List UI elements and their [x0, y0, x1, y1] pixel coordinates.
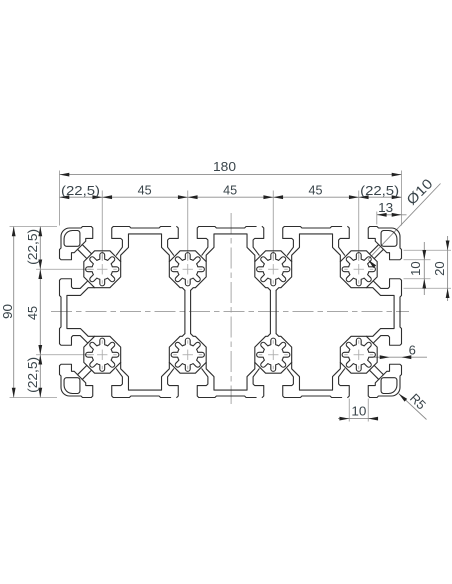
center mark dash L (67.5,22.5) [173, 268, 177, 270]
center mark dash R (22.5,22.5) [113, 268, 117, 270]
corner arc top-left [61, 228, 70, 237]
center mark dash B (157.5,67.5) [358, 366, 360, 370]
wire slot funnel top x=67.5 right [197, 227, 208, 256]
center mark bore (112.5,67.5) v [272, 350, 274, 360]
center mark bore (112.5,67.5) h [268, 354, 278, 356]
arrow r10 T [422, 250, 426, 260]
center mark bore (22.5,22.5) h [97, 268, 107, 270]
center mark dash B (22.5,67.5) [101, 366, 103, 370]
center mark dash R (67.5,67.5) [199, 354, 203, 356]
wire top box x=45 [121, 234, 170, 262]
wire outer top face [284, 227, 341, 229]
wire slot funnel bottom x=112.5 right [283, 369, 294, 398]
center mark dash R (22.5,67.5) [113, 354, 117, 356]
arrow r20 T [446, 240, 450, 250]
arrow chain 4 R [392, 195, 402, 199]
ext 180 right [401, 171, 403, 226]
center line horizontal [51, 311, 409, 313]
ext 13 left [376, 212, 378, 225]
svg-text:10: 10 [408, 261, 423, 276]
svg-text:13: 13 [378, 200, 393, 215]
ext chain x=67.5 [187, 191, 189, 261]
wire bottom box x=90 [206, 362, 255, 390]
arrow 6 R [402, 355, 412, 359]
arrow 13 R [392, 213, 402, 217]
dim line left chain [39, 227, 41, 398]
wire outer bottom face [199, 396, 256, 398]
arrow b10 L [339, 417, 349, 421]
boss octagon bore 2 (67.5,22.5) [169, 251, 206, 291]
dim line right 10 [423, 242, 425, 295]
svg-text:45: 45 [309, 182, 323, 197]
arrow 90 B [12, 388, 16, 398]
wire outer bottom face [284, 396, 341, 398]
dim line right 20 [447, 236, 449, 301]
arrow chain 0 R [92, 195, 102, 199]
arrow lchain 2 B [38, 388, 42, 398]
dim line 180 [60, 174, 402, 176]
ext chain x=22.5 [101, 191, 103, 261]
ext 10 bottom [404, 278, 431, 280]
arrow chain 1 R [178, 195, 188, 199]
ext 10 top [404, 259, 431, 261]
ext bottom10 right [367, 399, 369, 422]
wire corner edge-slot lip top-left [60, 279, 88, 289]
center mark dash T (22.5,22.5) [101, 255, 103, 259]
splined bore bore 2 (67.5,22.5) [171, 253, 204, 286]
center mark dash R (157.5,67.5) [370, 354, 374, 356]
center mark dash B (157.5,22.5) [358, 280, 360, 284]
svg-text:20: 20 [432, 261, 447, 276]
wire outer top face [199, 227, 256, 229]
arrow lchain 2 T [38, 355, 42, 365]
corner screw channel bottom-left [64, 378, 80, 394]
wire corner cell funnel bottom-right [339, 369, 350, 398]
wire slot funnel top x=112.5 right [283, 227, 294, 256]
arrow r20 B [446, 288, 450, 298]
corner arc bottom-right [391, 387, 400, 396]
wire outer right face [400, 280, 402, 343]
wire corner web stub a bottom-left [82, 370, 91, 379]
center mark bore (67.5,22.5) v [187, 264, 189, 274]
center mark bore (112.5,22.5) v [272, 264, 274, 274]
center mark bore (157.5,67.5) h [354, 354, 364, 356]
wire corner web stub b bottom-right [374, 365, 383, 374]
center mark dash B (112.5,67.5) [272, 366, 274, 370]
arrow b10 R [368, 417, 378, 421]
arrow 13 L [377, 213, 387, 217]
dim line 6 [374, 356, 427, 358]
boss octagon bore 7 (112.5,67.5) [255, 334, 292, 374]
center mark dash R (112.5,22.5) [284, 268, 288, 270]
center mark dash T (157.5,67.5) [358, 340, 360, 344]
wire corner edge-slot lip top-right [373, 279, 401, 289]
wire outer left face [60, 366, 62, 388]
arrow chain 3 R [349, 195, 359, 199]
wire vertical web x=67.5 left [184, 290, 186, 333]
ext left chain bore1 [36, 268, 94, 270]
wire outer top face [370, 227, 392, 229]
wire slot funnel top x=112.5 left [253, 227, 264, 256]
center mark dash R (67.5,22.5) [199, 268, 203, 270]
wire left edge box [67, 288, 95, 337]
svg-text:(22,5): (22,5) [25, 229, 40, 265]
wire outer top face [113, 227, 170, 229]
arrow chain 2 R [263, 195, 273, 199]
wire corner edge-slot lip bottom-right [373, 336, 401, 346]
center mark dash L (112.5,22.5) [259, 268, 263, 270]
boss octagon bore 6 (67.5,67.5) [169, 334, 206, 374]
wire corner web stub a top-right [369, 245, 378, 254]
arrow lchain 0 T [38, 227, 42, 237]
ext 90 top [10, 226, 58, 228]
arrow chain 4 L [359, 195, 369, 199]
splined bore bore 8 (157.5,67.5) [342, 338, 375, 371]
wire corner cell funnel top-right [339, 227, 350, 256]
wire right edge box [366, 288, 394, 337]
arrow lchain 1 T [38, 269, 42, 279]
svg-text:10: 10 [351, 403, 366, 418]
dim line bottom 10 [338, 418, 378, 420]
corner screw channel top-left [64, 230, 80, 246]
leader R5 [399, 394, 427, 420]
arrow chain 1 L [102, 195, 112, 199]
corner screw channel top-right [381, 230, 397, 246]
dim line chain [60, 196, 402, 198]
svg-text:6: 6 [409, 343, 416, 358]
arrow 180 L [60, 173, 70, 177]
splined bore bore 3 (112.5,22.5) [257, 253, 290, 286]
wire top box x=135 [292, 234, 341, 262]
svg-text:90: 90 [0, 304, 15, 319]
center mark bore (67.5,67.5) v [187, 350, 189, 360]
svg-text:(22,5): (22,5) [360, 183, 399, 198]
arrow 90 T [12, 227, 16, 237]
wire corner web stub b top-left [78, 249, 87, 258]
center mark bore (157.5,22.5) h [354, 268, 364, 270]
wire bottom box x=45 [121, 362, 170, 390]
wire corner block inner boundary top-right [368, 227, 401, 260]
wire slot funnel top x=67.5 left [168, 227, 179, 256]
center mark bore (22.5,67.5) v [101, 350, 103, 360]
corner arc bottom-left [61, 387, 70, 396]
corner screw channel bottom-right [381, 378, 397, 394]
svg-text:45: 45 [25, 306, 40, 320]
center mark dash L (22.5,67.5) [88, 354, 92, 356]
center mark dash B (22.5,22.5) [101, 280, 103, 284]
center mark dash T (22.5,67.5) [101, 340, 103, 344]
ext 20 top [404, 249, 452, 251]
ext left chain bore5 [36, 354, 94, 356]
wire corner block inner boundary top-left [60, 227, 93, 260]
wire corner web stub b top-right [374, 249, 383, 258]
splined bore bore 7 (112.5,67.5) [257, 338, 290, 371]
splined bore bore 6 (67.5,67.5) [171, 338, 204, 371]
center mark bore (112.5,22.5) h [268, 268, 278, 270]
center mark dash T (112.5,67.5) [272, 340, 274, 344]
arrow lchain 0 B [38, 259, 42, 269]
center mark dash R (112.5,67.5) [284, 354, 288, 356]
wire slot funnel bottom x=67.5 left [168, 369, 179, 398]
wire corner web stub a top-left [82, 245, 91, 254]
center mark dash B (67.5,22.5) [187, 280, 189, 284]
wire corner web stub b bottom-left [78, 365, 87, 374]
splined bore bore 1 (22.5,22.5) [86, 253, 119, 286]
wire outer bottom face [370, 396, 392, 398]
boss octagon bore 3 (112.5,22.5) [255, 251, 292, 291]
ext 180 left [59, 171, 61, 226]
arrow 180 R [392, 173, 402, 177]
boss octagon bore 5 (22.5,67.5) [84, 336, 121, 373]
wire outer left face [60, 280, 62, 343]
dim line 13 [377, 214, 407, 216]
svg-text:45: 45 [138, 182, 152, 197]
wire vertical web x=112.5 right [275, 290, 277, 333]
wire corner block inner boundary bottom-right [368, 364, 401, 397]
svg-text:(22,5): (22,5) [25, 357, 40, 393]
wire corner cell funnel bottom-left [112, 369, 123, 398]
wire slot funnel bottom x=67.5 right [197, 369, 208, 398]
center mark dash L (112.5,67.5) [259, 354, 263, 356]
center mark dash B (112.5,22.5) [272, 280, 274, 284]
center mark bore (67.5,67.5) h [183, 354, 193, 356]
center mark dash T (67.5,67.5) [187, 340, 189, 344]
wire outer right face [400, 366, 402, 388]
arrow R5 [399, 394, 407, 402]
center mark bore (67.5,22.5) h [183, 268, 193, 270]
center mark dash B (67.5,67.5) [187, 366, 189, 370]
arrow r10 B [422, 279, 426, 289]
wire vertical web x=112.5 left [269, 290, 271, 333]
ext 90 bottom [10, 397, 58, 399]
boss octagon bore 1 (22.5,22.5) [84, 251, 121, 288]
center mark dash L (157.5,22.5) [344, 268, 348, 270]
wire slot funnel bottom x=112.5 left [253, 369, 264, 398]
dim line 90 [13, 227, 15, 398]
arrow chain 0 L [60, 195, 70, 199]
center mark dash L (157.5,67.5) [344, 354, 348, 356]
splined bore bore 4 (157.5,22.5) [342, 253, 375, 286]
wire outer right face [400, 237, 402, 259]
center mark bore (157.5,67.5) v [358, 350, 360, 360]
center mark bore (157.5,22.5) v [358, 264, 360, 274]
arrow chain 3 L [273, 195, 283, 199]
svg-text:180: 180 [213, 159, 236, 174]
splined bore bore 5 (22.5,67.5) [86, 338, 119, 371]
corner arc top-right [391, 228, 400, 237]
wire bottom box x=135 [292, 362, 341, 390]
center mark dash L (67.5,67.5) [173, 354, 177, 356]
ext bottom10 left [348, 399, 350, 422]
wire vertical web x=67.5 right [190, 290, 192, 333]
wire corner web stub a bottom-right [369, 370, 378, 379]
center mark bore (22.5,67.5) h [97, 354, 107, 356]
wire corner block inner boundary bottom-left [60, 364, 93, 397]
center mark bore (22.5,22.5) v [101, 264, 103, 274]
wire outer left face [60, 237, 62, 259]
arrow chain 2 L [188, 195, 198, 199]
wire outer top face [70, 227, 92, 229]
center mark dash T (67.5,22.5) [187, 255, 189, 259]
wire outer bottom face [70, 396, 92, 398]
ext 20 bottom [404, 287, 452, 289]
boss octagon bore 4 (157.5,22.5) [340, 251, 377, 288]
leader dia10 [368, 184, 441, 260]
arrow 6 L [380, 355, 390, 359]
wire corner cell funnel top-left [112, 227, 123, 256]
ext chain x=112.5 [272, 191, 274, 261]
wire top box x=90 [206, 234, 255, 262]
center mark dash T (112.5,22.5) [272, 255, 274, 259]
center mark dash L (22.5,22.5) [88, 268, 92, 270]
ext chain x=157.5 [358, 191, 360, 261]
arrow dia10 [368, 260, 376, 268]
boss octagon bore 8 (157.5,67.5) [340, 336, 377, 373]
center line vertical [230, 213, 232, 404]
arrow lchain 1 B [38, 345, 42, 355]
svg-text:45: 45 [223, 182, 237, 197]
center mark dash T (157.5,22.5) [358, 255, 360, 259]
svg-text:(22,5): (22,5) [61, 183, 100, 198]
wire corner edge-slot lip bottom-left [60, 336, 88, 346]
center mark dash R (157.5,22.5) [370, 268, 374, 270]
wire outer bottom face [113, 396, 170, 398]
